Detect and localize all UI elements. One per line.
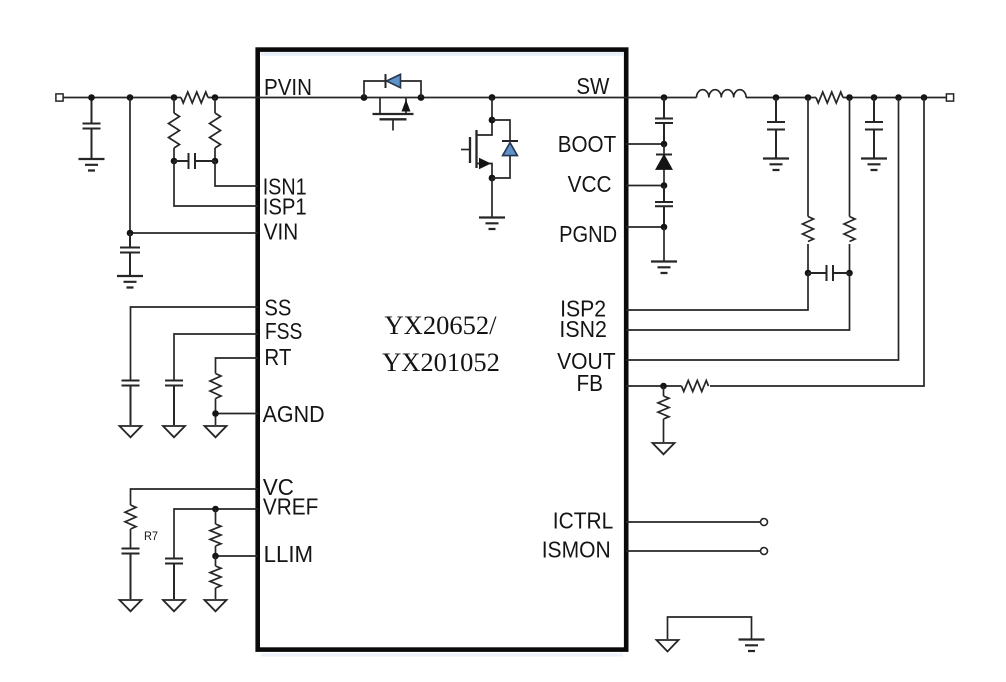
- wire VCC pin: [626, 185, 664, 187]
- resistor R10 ISN2 branch: [844, 98, 855, 274]
- capacitor C9 BOOT: [655, 98, 673, 145]
- svg-text:ISMON: ISMON: [542, 536, 611, 562]
- node LLIM junction: [212, 553, 219, 560]
- node sense2 cap left: [805, 270, 812, 277]
- resistor R5 VREF-LLIM: [210, 509, 221, 556]
- node PGND junction: [661, 224, 668, 231]
- ground G11: [763, 159, 789, 171]
- capacitor C4 FSS: [165, 381, 183, 426]
- node sense cap left: [171, 158, 178, 165]
- node ISN2 top junction: [846, 94, 853, 101]
- op-amp U1 IC body YX20652: [258, 50, 627, 655]
- ground G6 triangle: [120, 600, 142, 611]
- resistor R12 FB pulldown: [658, 386, 669, 442]
- wire RT pin: [216, 358, 259, 374]
- ground G9 Q2 source: [479, 178, 505, 229]
- svg-text:FSS: FSS: [265, 318, 303, 344]
- ground G4 triangle: [163, 426, 185, 437]
- svg-text:SW: SW: [576, 73, 609, 99]
- node VCC junction: [661, 182, 668, 189]
- input terminal square: [56, 94, 63, 101]
- ground G1: [79, 159, 105, 171]
- node sense cap right: [212, 158, 219, 165]
- diode D2 Q2 body diode: [492, 120, 518, 178]
- capacitor C7 sense2 horizontal: [808, 265, 850, 281]
- IC name text YX20652/YX201052: [382, 310, 500, 377]
- node ISP2 top junction: [805, 94, 812, 101]
- wire ICTRL pin: [626, 521, 761, 523]
- transistor Q2 low-side NMOS: [461, 98, 495, 182]
- ground G7 triangle: [163, 600, 185, 611]
- node output cap2 junction: [871, 94, 878, 101]
- ground G2: [117, 276, 143, 288]
- resistor R9 ISP2 branch: [803, 98, 814, 274]
- resistor R8 output sense horizontal: [816, 92, 843, 103]
- capacitor C6 VREF: [165, 559, 183, 600]
- capacitor C3 SS: [122, 381, 140, 426]
- svg-text:VIN: VIN: [264, 219, 299, 245]
- wire VREF pin: [174, 509, 258, 558]
- ground G15 earth PGND: [739, 640, 765, 652]
- svg-text:R7: R7: [144, 529, 158, 543]
- svg-text:VCC: VCC: [568, 171, 612, 197]
- svg-text:YX20652/: YX20652/: [385, 310, 498, 340]
- wire ISN2 pin: [626, 273, 850, 330]
- svg-text:VREF: VREF: [263, 494, 319, 520]
- svg-text:ISP1: ISP1: [263, 194, 307, 220]
- wire SS pin: [131, 307, 259, 380]
- capacitor C1 input: [83, 98, 101, 159]
- capacitor C12 output: [865, 98, 883, 158]
- diode D1 Q1 body diode: [386, 74, 401, 88]
- resistor R4 RT: [210, 374, 221, 414]
- wire VIN vertical drop: [129, 98, 131, 234]
- wire main input rail PVIN to SW output rail: [63, 97, 946, 99]
- ground G14 triangle AGND: [657, 640, 679, 652]
- resistor R1 sense left vertical: [169, 98, 180, 162]
- inductor L1: [697, 90, 747, 98]
- node VREF junction: [212, 506, 219, 513]
- wire AGND pin: [216, 414, 259, 426]
- diode D3 bootstrap: [656, 144, 672, 186]
- svg-text:BOOT: BOOT: [558, 131, 617, 157]
- node sense left junction: [171, 94, 178, 101]
- ground G8 triangle: [205, 600, 227, 611]
- node VIN: [127, 230, 134, 237]
- wire LLIM pin: [216, 555, 259, 557]
- node VOUT top junction: [895, 94, 902, 101]
- wire ISP1 pin: [174, 161, 258, 206]
- node FB junction: [660, 383, 667, 390]
- node SW output junction: [661, 94, 668, 101]
- ISMON open terminal: [761, 548, 768, 555]
- svg-text:SS: SS: [264, 294, 291, 320]
- output terminal square: [946, 94, 953, 101]
- wire FSS pin: [174, 334, 258, 380]
- resistor R2 sense right vertical: [210, 98, 221, 162]
- node FB top junction: [921, 94, 928, 101]
- capacitor C11 output: [767, 98, 785, 158]
- node sense2 cap right: [846, 270, 853, 277]
- capacitor C2 VIN bypass: [120, 233, 140, 275]
- node sense right junction: [212, 94, 219, 101]
- wire VC pin: [131, 489, 259, 505]
- ground G3 triangle: [120, 426, 142, 437]
- resistor R3 sense top horizontal: [181, 92, 208, 103]
- wire FB pin: [626, 98, 924, 387]
- wire PGND pin: [626, 226, 664, 228]
- svg-text:ISN2: ISN2: [559, 316, 607, 342]
- capacitor C8 sense horizontal: [174, 153, 215, 169]
- ground G10 PGND chain: [651, 227, 677, 273]
- wire ISMON pin: [626, 550, 761, 552]
- wire VOUT pin: [626, 98, 899, 361]
- svg-text:PGND: PGND: [559, 221, 617, 247]
- wire ISP2 pin: [626, 273, 808, 310]
- node BOOT junction: [661, 141, 668, 148]
- resistor R11 FB feedback horizontal: [682, 381, 709, 392]
- svg-text:FB: FB: [577, 370, 604, 396]
- ground G12: [861, 159, 887, 171]
- svg-text:AGND: AGND: [263, 401, 325, 427]
- capacitor C5 VC: [122, 549, 140, 600]
- svg-text:RT: RT: [264, 344, 291, 370]
- node C1 junction: [88, 94, 95, 101]
- svg-text:YX201052: YX201052: [382, 347, 500, 377]
- wire BOOT pin: [626, 143, 664, 145]
- node output cap1 junction: [773, 94, 780, 101]
- resistor R6 LLIM lower: [210, 556, 221, 599]
- resistor R7 VC: [125, 505, 136, 548]
- svg-text:LLIM: LLIM: [264, 541, 314, 567]
- ICTRL open terminal: [761, 519, 768, 526]
- node RT-AGND junction: [212, 410, 219, 417]
- ground G13 triangle FB: [653, 443, 675, 454]
- node VIN junction on rail: [127, 94, 134, 101]
- svg-text:PVIN: PVIN: [264, 74, 312, 100]
- ground G5 triangle: [205, 426, 227, 437]
- wire ISN1 pin: [215, 161, 258, 186]
- capacitor C10 VCC: [655, 186, 673, 228]
- transistor Q1 high-side PMOS: [361, 81, 425, 131]
- svg-text:ICTRL: ICTRL: [553, 507, 614, 533]
- wire VIN pin: [130, 232, 258, 234]
- wire ground link bottom: [668, 617, 752, 639]
- node SW internal junction: [489, 94, 496, 101]
